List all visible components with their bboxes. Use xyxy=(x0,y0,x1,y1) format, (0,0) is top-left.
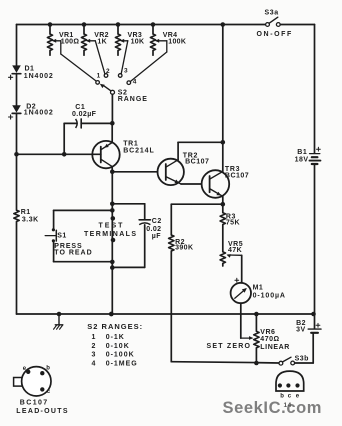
svg-text:1: 1 xyxy=(92,334,96,341)
svg-text:14: 14 xyxy=(284,402,292,409)
svg-text:2: 2 xyxy=(92,343,96,350)
svg-text:0-1MEG: 0-1MEG xyxy=(106,360,138,367)
svg-text:RANGE: RANGE xyxy=(118,96,148,103)
svg-text:0-1K: 0-1K xyxy=(106,334,125,341)
svg-text:S3a: S3a xyxy=(265,10,279,17)
svg-text:0-100K: 0-100K xyxy=(106,352,135,359)
svg-text:3.3K: 3.3K xyxy=(22,216,39,223)
svg-text:SET ZERO: SET ZERO xyxy=(207,343,252,350)
svg-text:S3b: S3b xyxy=(295,356,309,363)
svg-text:470Ω: 470Ω xyxy=(260,336,279,343)
svg-text:S2 RANGES:: S2 RANGES: xyxy=(87,322,143,331)
svg-text:100K: 100K xyxy=(168,39,186,46)
svg-text:BC107: BC107 xyxy=(20,399,49,406)
svg-text:LINEAR: LINEAR xyxy=(260,344,290,351)
svg-text:ON-OFF: ON-OFF xyxy=(257,31,293,38)
svg-text:R1: R1 xyxy=(21,209,31,216)
svg-text:10K: 10K xyxy=(131,39,145,46)
svg-text:M1: M1 xyxy=(253,284,264,291)
svg-text:S1: S1 xyxy=(57,232,67,239)
svg-text:390K: 390K xyxy=(175,244,193,251)
svg-text:b: b xyxy=(46,365,50,371)
svg-text:TERMINALS: TERMINALS xyxy=(84,231,137,238)
svg-text:SeekIC.com: SeekIC.com xyxy=(223,399,323,417)
svg-text:4: 4 xyxy=(92,360,96,367)
svg-text:0.02: 0.02 xyxy=(146,226,161,233)
svg-text:100Ω: 100Ω xyxy=(61,39,80,46)
svg-text:3V: 3V xyxy=(296,327,306,334)
svg-text:1: 1 xyxy=(97,72,101,79)
svg-text:47K: 47K xyxy=(228,247,242,254)
svg-text:3: 3 xyxy=(92,352,96,359)
svg-text:BC107: BC107 xyxy=(225,173,249,180)
svg-text:µF: µF xyxy=(152,233,161,240)
svg-text:C1: C1 xyxy=(75,104,85,111)
svg-text:2: 2 xyxy=(106,68,110,75)
svg-text:0.02µF: 0.02µF xyxy=(72,111,97,118)
svg-text:18V: 18V xyxy=(295,157,309,164)
svg-text:C2: C2 xyxy=(152,218,162,225)
svg-text:BC214L: BC214L xyxy=(123,147,154,154)
svg-text:75K: 75K xyxy=(226,219,240,226)
svg-text:TR1: TR1 xyxy=(123,140,138,147)
svg-text:LEAD-OUTS: LEAD-OUTS xyxy=(16,408,69,415)
svg-text:0-100µA: 0-100µA xyxy=(253,293,286,300)
svg-text:1K: 1K xyxy=(97,39,107,46)
svg-text:D1: D1 xyxy=(25,66,35,73)
svg-text:BC107: BC107 xyxy=(185,158,209,165)
svg-text:1N4002: 1N4002 xyxy=(24,73,54,80)
svg-text:1N4002: 1N4002 xyxy=(24,109,54,116)
svg-text:TEST: TEST xyxy=(99,223,125,230)
svg-text:TO READ: TO READ xyxy=(54,250,92,257)
svg-text:0-10K: 0-10K xyxy=(106,343,130,350)
svg-text:B1: B1 xyxy=(297,149,307,156)
svg-text:VR6: VR6 xyxy=(260,329,275,336)
svg-text:3: 3 xyxy=(124,68,128,75)
svg-text:4: 4 xyxy=(133,79,137,86)
